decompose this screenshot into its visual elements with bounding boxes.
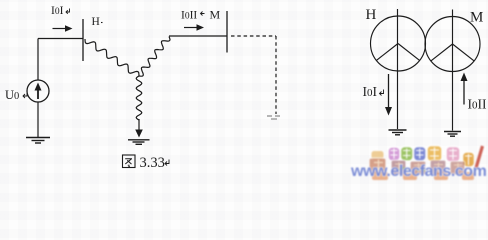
svg-text:M: M <box>210 8 221 22</box>
wire: U0 top to corner <box>37 39 39 81</box>
H vertical lead <box>397 9 399 129</box>
bubble char indigo <box>414 147 427 162</box>
winding H circle <box>371 16 426 71</box>
svg-text:M: M <box>470 10 483 26</box>
bubble char orange2 <box>463 152 475 167</box>
inductor squiggle right <box>139 37 170 77</box>
wire: squiggle to M plane <box>169 35 227 37</box>
inductor squiggle down <box>136 76 142 120</box>
measurement plane H (tick) <box>82 19 84 61</box>
ground under U0 <box>26 138 50 144</box>
M winding diagonals <box>431 44 474 61</box>
svg-text:U0: U0 <box>5 88 19 102</box>
return mark after I0I (right fig) <box>380 90 384 96</box>
dot after H <box>101 22 103 24</box>
bubble char pink2 <box>446 147 460 163</box>
ground (center) <box>128 140 150 145</box>
svg-text:3.33: 3.33 <box>140 155 165 171</box>
big red-maroon chars <box>369 158 465 175</box>
arrow I0I <box>53 25 73 31</box>
caption glyph TU (drawn box char) <box>123 155 136 168</box>
tan char behind <box>371 151 384 161</box>
bubble char green <box>401 147 414 162</box>
dashed wire vertical <box>275 36 277 114</box>
wire: U0 bottom <box>37 102 39 137</box>
return mark after caption <box>165 160 169 166</box>
winding M circle <box>425 17 480 72</box>
watermark colorful logo <box>350 138 488 182</box>
inductor squiggle left <box>85 39 139 76</box>
svg-text:I0II: I0II <box>181 10 197 22</box>
svg-text:H: H <box>366 7 377 23</box>
H winding diagonals <box>376 44 419 61</box>
arrow I0II up (right fig) <box>461 73 468 105</box>
green accents <box>399 168 425 171</box>
svg-text:I0I: I0I <box>363 84 378 99</box>
dashed wire horizontal <box>231 35 276 37</box>
ground (right fig H) <box>389 130 407 135</box>
measurement plane M (tick) <box>226 11 228 53</box>
M vertical lead <box>452 10 454 131</box>
wire: horizontal to H plane <box>38 38 83 40</box>
arrow down to ground (center) <box>135 119 143 138</box>
return mark after U0 <box>23 93 27 99</box>
arrow I0II <box>184 24 204 30</box>
mark after I0II <box>201 12 205 16</box>
bubble char orange <box>427 146 442 162</box>
svg-text:I0II: I0II <box>468 97 487 112</box>
ground (right fig M) <box>444 132 461 137</box>
return mark after I0I <box>66 9 70 14</box>
orange bits under text <box>372 172 474 180</box>
svg-text:I0I: I0I <box>51 5 64 17</box>
svg-text:H: H <box>92 16 100 28</box>
arrow I0I down (right fig) <box>385 74 392 116</box>
current source U0 <box>27 80 49 102</box>
faint ground at dashed stub <box>267 116 280 119</box>
red slash <box>476 146 483 168</box>
bubble char pink <box>388 147 400 161</box>
watermark url text <box>351 163 486 181</box>
